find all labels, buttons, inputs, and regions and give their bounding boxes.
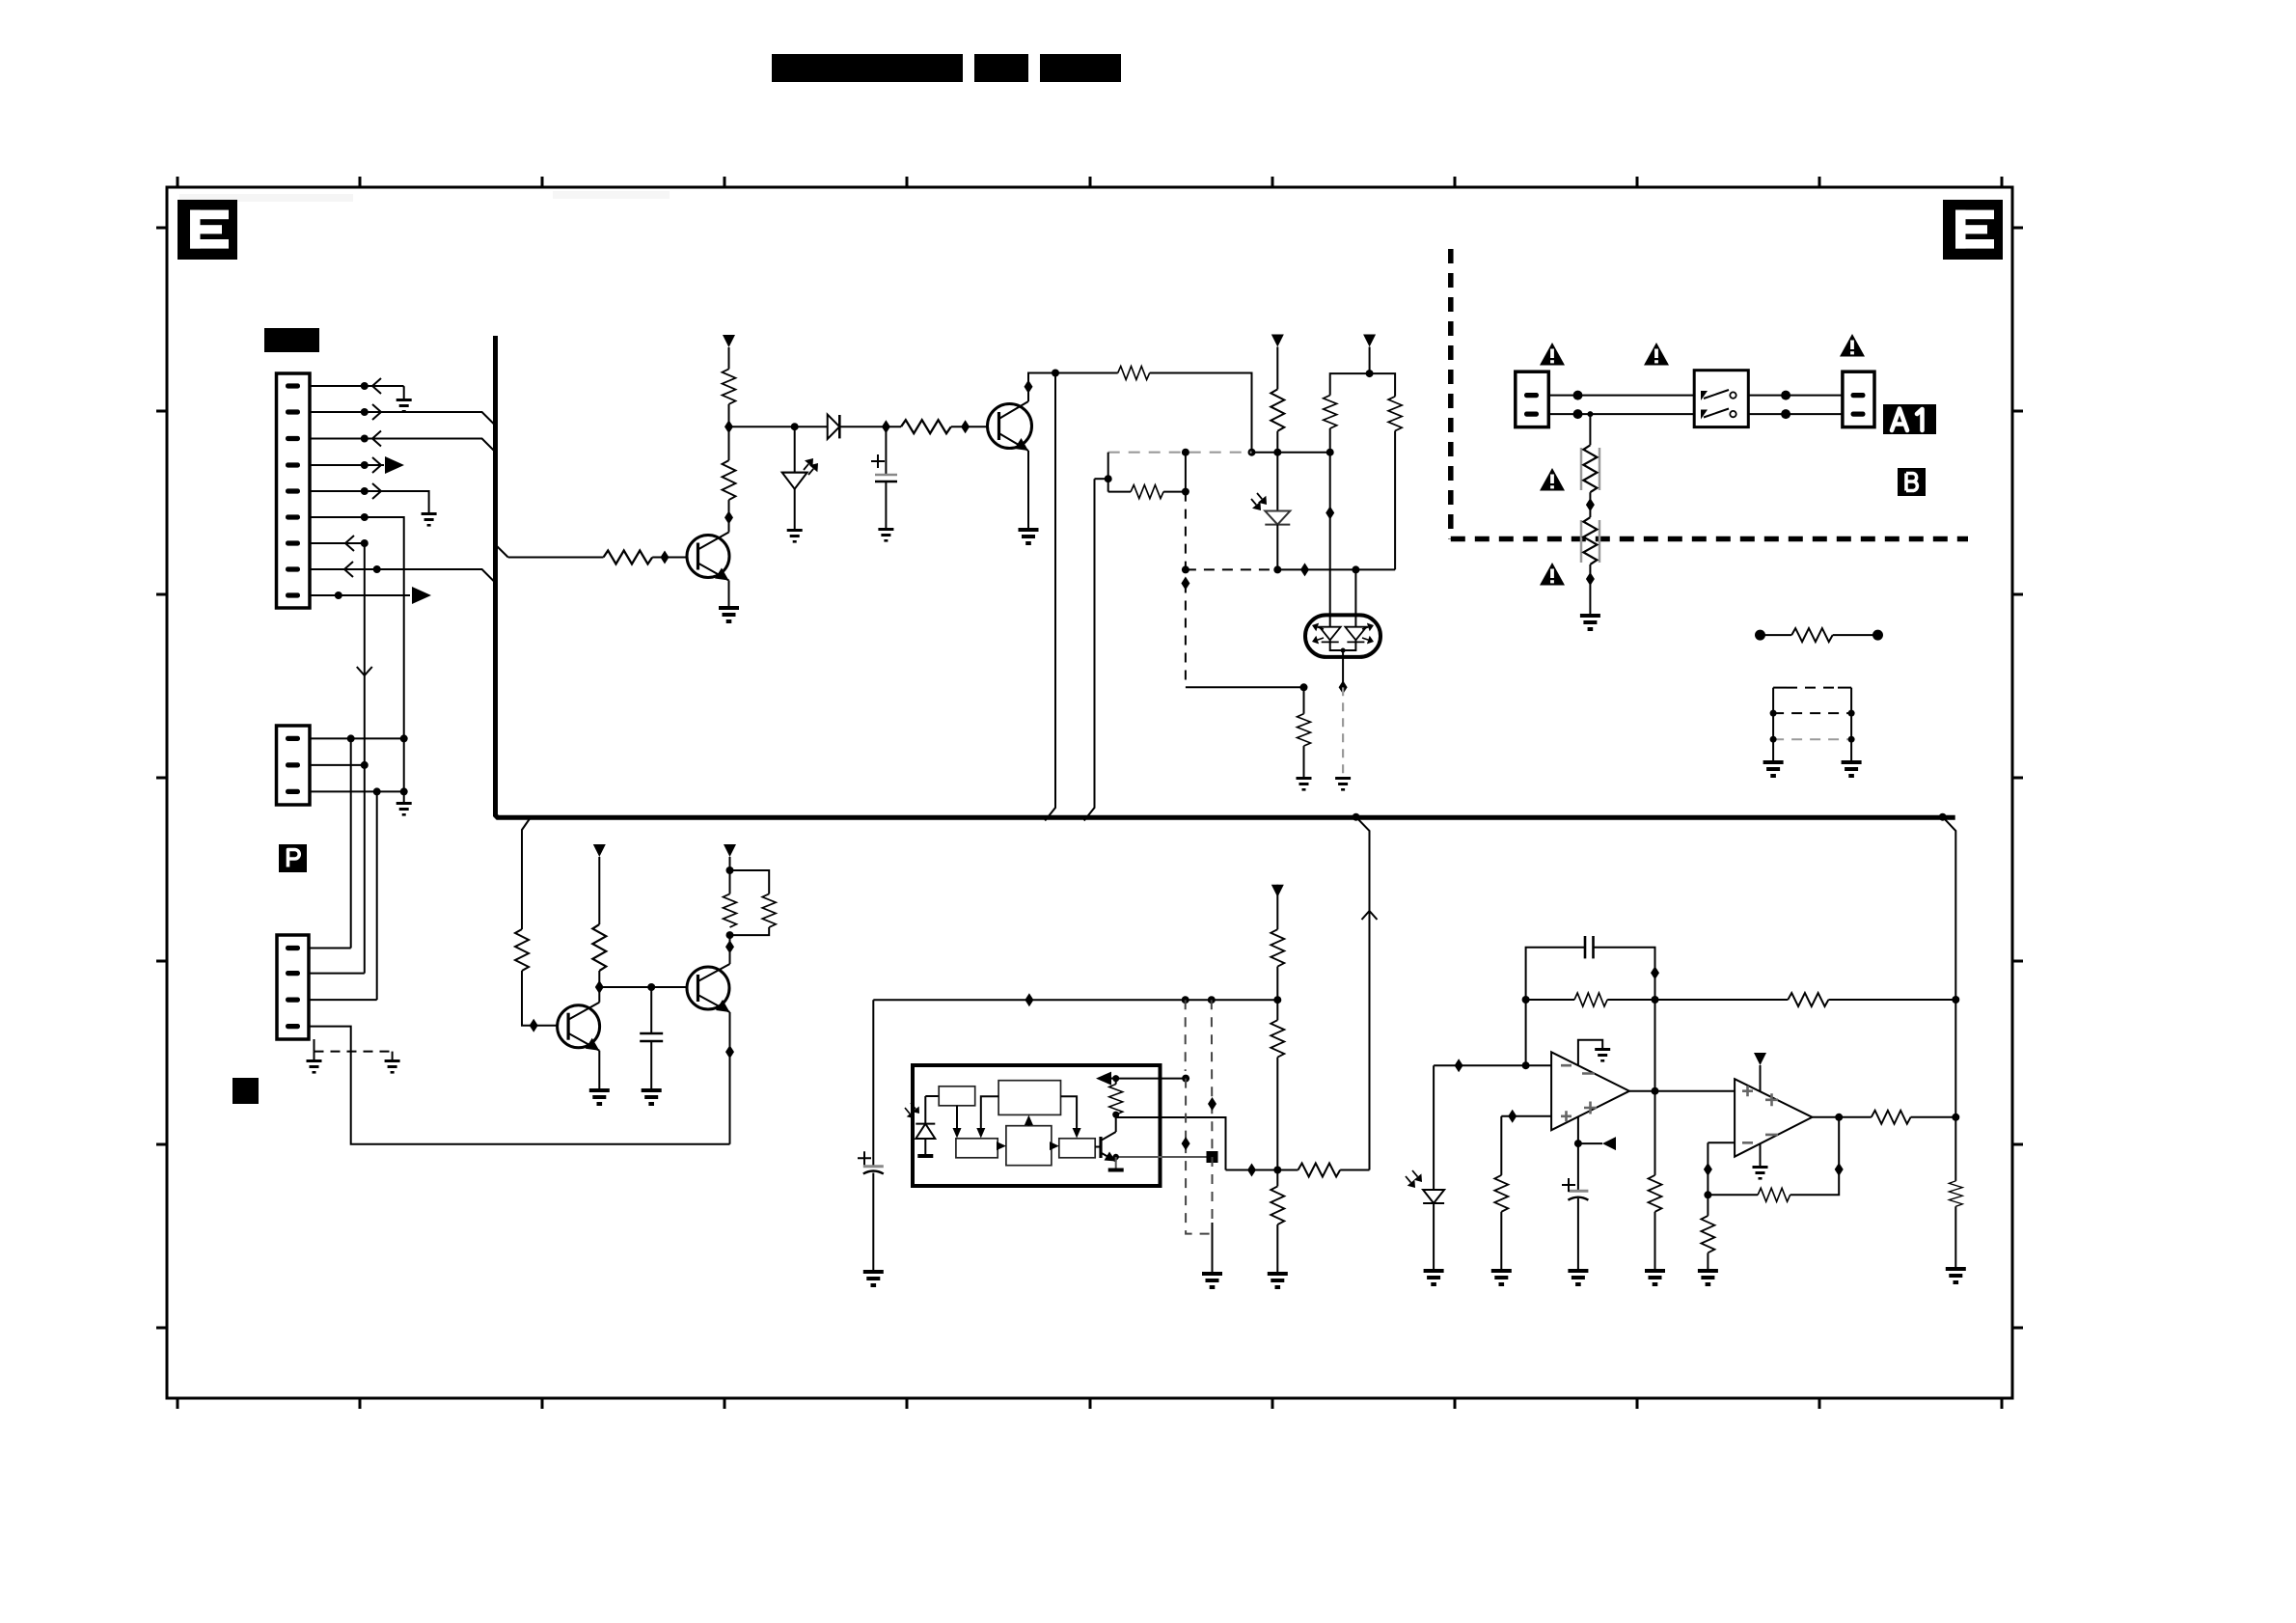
wire U1 photodiode top bbox=[924, 1096, 926, 1124]
dashed net v1 upper bbox=[1185, 453, 1187, 492]
wire to R8 bbox=[1055, 372, 1118, 374]
wire Q1 collector bbox=[728, 500, 730, 532]
wire node to R3 bbox=[728, 404, 730, 426]
wire J1 pin6 down to J2 bbox=[310, 517, 404, 738]
signal arrow pin4 bbox=[372, 457, 381, 473]
resistor R16 bbox=[724, 894, 737, 927]
wire C5 to output column bbox=[1594, 948, 1655, 1000]
wire R22 to output col bbox=[1607, 999, 1654, 1001]
resistor R14 bbox=[1791, 628, 1832, 642]
wire D4 to ground bbox=[1433, 1203, 1435, 1269]
resistor R17 bbox=[762, 894, 776, 927]
power supply arrow 3 bbox=[1363, 335, 1376, 347]
IC U1 box bbox=[913, 1065, 1161, 1186]
ground C4 bbox=[1568, 1269, 1588, 1286]
junction diamond rail mid bbox=[1025, 993, 1033, 1006]
junction rail a bbox=[1248, 449, 1256, 456]
ground R20 bbox=[1268, 1272, 1288, 1289]
junction diamond v2 bbox=[1208, 1097, 1216, 1111]
U1 block 2 bbox=[998, 1081, 1060, 1115]
junction U2 fb bbox=[1522, 1061, 1530, 1069]
wire output col down bbox=[1654, 1091, 1656, 1175]
wire arrow stub bbox=[1102, 1078, 1116, 1080]
output arrow pin4 bbox=[385, 456, 404, 474]
ground shield left bbox=[307, 1059, 322, 1074]
wire shield gnd right bbox=[392, 1052, 394, 1059]
wire photodiode to block1 bbox=[925, 1095, 939, 1097]
U1 ref arrow bbox=[1096, 1072, 1111, 1086]
junction diamond opto left bbox=[1326, 507, 1334, 520]
wire supply6 to R18 bbox=[1276, 885, 1278, 929]
wire U1 emitter stub bbox=[1115, 1157, 1117, 1169]
wire U1 ref pin bbox=[1116, 1078, 1186, 1080]
U1 arrow blk2-blk5 bbox=[1061, 1096, 1081, 1138]
power supply arrow 2 bbox=[1271, 335, 1284, 347]
junction chain fb bbox=[1273, 1167, 1281, 1174]
diode D1 bbox=[828, 415, 840, 439]
wire to R14 bbox=[1761, 634, 1792, 636]
junction R12 bbox=[1182, 488, 1189, 496]
connector J2 (3-pin) bbox=[277, 726, 311, 805]
wire R7 to Q2 base bbox=[951, 426, 988, 427]
wire R14 to terminal bbox=[1833, 634, 1878, 636]
resistor R13 bbox=[1298, 714, 1311, 746]
wire J1 pin4 bbox=[310, 464, 384, 466]
junction J2 pin1 b bbox=[400, 734, 408, 742]
junction J2 pin1 a bbox=[347, 734, 355, 742]
resistor R10 bbox=[1324, 396, 1337, 428]
LED D2 bbox=[782, 458, 818, 489]
bus junction bbox=[1353, 813, 1360, 821]
junction diamond Q4 emitter bbox=[725, 1045, 734, 1059]
junction collector rail bbox=[1052, 370, 1059, 377]
dashed sense line v1 bbox=[1185, 1000, 1187, 1071]
wire shield gnd left bbox=[314, 1052, 315, 1059]
wire to supply 5 bbox=[729, 857, 731, 870]
wire R5 to Q3 base bbox=[522, 971, 558, 1026]
wire C3 to ground bbox=[872, 1173, 874, 1271]
U1 output transistor bbox=[1095, 1132, 1116, 1162]
border frame bbox=[167, 187, 2012, 1398]
junction diamond U2 plus bbox=[1508, 1110, 1517, 1123]
U1 arrow blk3-blk4 bbox=[997, 1142, 1006, 1150]
capacitor C5 bbox=[1585, 936, 1594, 958]
wire J1 pin1 to ground bbox=[310, 386, 404, 399]
wire fb to R22 bbox=[1526, 999, 1574, 1001]
junction link L1 bbox=[1770, 710, 1777, 717]
wire Q2 collector up bbox=[1028, 373, 1055, 402]
bus entry to opamp rail bbox=[1943, 817, 1956, 1000]
opto right LED bbox=[1345, 623, 1374, 645]
supply rail mid bbox=[873, 999, 1277, 1001]
resistor R12 bbox=[1131, 485, 1163, 499]
wire bus to R6 bbox=[508, 557, 604, 559]
junction diamond Q3 base bbox=[530, 1019, 538, 1032]
wire R18 to R19 bbox=[1276, 967, 1278, 1021]
safety bars RF2 bbox=[1581, 520, 1599, 563]
wire R28 to col bbox=[1828, 999, 1955, 1001]
junction LED bottom bbox=[1273, 565, 1281, 573]
junction chain mid bbox=[1273, 996, 1281, 1004]
ground R13 bbox=[1297, 777, 1312, 791]
power supply arrow 4 bbox=[593, 844, 606, 857]
ground Q3 bbox=[589, 1088, 610, 1106]
bus line (thick) bbox=[496, 336, 1955, 817]
dashed rail to IC section bbox=[1108, 452, 1252, 454]
ground R29 bbox=[1946, 1267, 1966, 1284]
opto common bar bbox=[1330, 640, 1356, 650]
capacitor C4 (polarized) bbox=[1562, 1178, 1588, 1200]
resistor R22 bbox=[1574, 993, 1607, 1006]
connector J1 (9-pin) bbox=[277, 373, 311, 608]
wire U3 to ground bbox=[1760, 1143, 1762, 1166]
warning triangle 3 bbox=[1840, 334, 1865, 357]
dashed sense line v1b bbox=[1186, 1079, 1212, 1234]
connector X2 (2-pin) bbox=[1843, 371, 1874, 426]
wire col down bbox=[1954, 1000, 1956, 1181]
connector J3 pins bbox=[286, 946, 300, 1029]
resistor R19 bbox=[1271, 1020, 1284, 1057]
junction U1 R top bbox=[1112, 1075, 1119, 1082]
resistor R6 bbox=[604, 551, 653, 564]
wire dashed rail corner down bbox=[1107, 453, 1109, 492]
dashed link mid bbox=[1773, 712, 1851, 714]
wire SW1 to X2 neutral bbox=[1748, 413, 1843, 415]
wire Q3 collector to Q4 base bbox=[599, 986, 687, 988]
wire node to C1 bbox=[885, 426, 887, 475]
isolation barrier (thick dashed) bbox=[1451, 249, 1968, 539]
wire Q1 emitter to ground bbox=[728, 581, 730, 607]
terminal dot right bbox=[1872, 630, 1883, 641]
ground pin5 bbox=[422, 512, 437, 527]
junction R16 top bbox=[726, 867, 734, 874]
resistor R23 bbox=[1494, 1175, 1508, 1212]
junction node LED bbox=[791, 423, 799, 430]
U1 block 3 bbox=[956, 1139, 998, 1158]
wire opto common down bbox=[1342, 650, 1344, 687]
wire U2 non-inverting input bbox=[1501, 1115, 1551, 1117]
power supply arrow 5 bbox=[724, 844, 736, 857]
junction U1 R bottom bbox=[1112, 1112, 1119, 1118]
dashed net v1 mid bbox=[1185, 492, 1187, 570]
transistor Q1 bbox=[687, 533, 729, 581]
wire fb to R26 bbox=[1708, 1194, 1758, 1196]
junction diamond Q2 base bbox=[961, 420, 970, 433]
wire J1 pin3 to bus bbox=[310, 439, 495, 452]
junction fb left bbox=[1522, 996, 1530, 1004]
junction J2 pin2 bbox=[361, 761, 369, 769]
dashed row 590 bbox=[1186, 568, 1277, 570]
junction line b bbox=[1781, 391, 1790, 400]
wire U2 inverting input bbox=[1434, 1064, 1551, 1066]
wire R23 to ground bbox=[1500, 1212, 1502, 1269]
junction output col top bbox=[1652, 996, 1659, 1004]
resistor R8 bbox=[1118, 367, 1150, 380]
junction diamond v1 bbox=[1181, 577, 1189, 591]
wire rail to opto left LED bbox=[1329, 453, 1331, 627]
wire R16 R17 top bbox=[730, 870, 770, 894]
resistor R11 bbox=[1388, 397, 1402, 431]
feedback rail right bbox=[1340, 1169, 1369, 1171]
wire to R12 bbox=[1108, 491, 1131, 493]
photodiode return stub bbox=[917, 1154, 933, 1158]
title redaction bar 3 bbox=[1040, 54, 1121, 82]
zone label E left bbox=[178, 200, 237, 260]
ground D2 bbox=[787, 529, 803, 543]
U1 arrow blk2-blk3 bbox=[976, 1096, 998, 1138]
switch pole 2 bbox=[1701, 409, 1736, 420]
wire J1 pin2 to bus bbox=[310, 412, 495, 425]
feedback rail left bbox=[1226, 1169, 1298, 1171]
junction diamond U3 fb bbox=[1704, 1163, 1712, 1176]
connector J2 pins bbox=[286, 736, 300, 794]
ground link right bbox=[1842, 760, 1862, 778]
wire R12 to dashed v1 bbox=[1163, 491, 1186, 493]
terminal dot left bbox=[1755, 630, 1765, 641]
junction U3 out bbox=[1835, 1114, 1843, 1121]
ground D4 bbox=[1424, 1269, 1444, 1286]
resistor R5 bbox=[515, 929, 529, 971]
wire R6 to Q1 base bbox=[652, 557, 687, 559]
junction col mid bbox=[1952, 996, 1959, 1004]
safety bars RF1 bbox=[1581, 448, 1599, 490]
opto left LED bbox=[1312, 623, 1341, 645]
signal arrow pin7 bbox=[345, 536, 354, 551]
junction pin5 bbox=[361, 487, 369, 495]
wire Q4 collector bbox=[729, 935, 731, 964]
wire rail to LED D3 bbox=[1276, 453, 1278, 511]
junction J2 pin3 b bbox=[400, 787, 408, 795]
signal arrow pin1 bbox=[372, 378, 381, 394]
wire X1 to SW1 neutral bbox=[1548, 413, 1694, 415]
output arrow pin9 bbox=[412, 587, 431, 604]
wire Q4 emitter down bbox=[729, 1012, 731, 1144]
link right vertical bbox=[1850, 688, 1852, 760]
wire J2 pin2 down to J3 pin2 bbox=[364, 765, 366, 974]
wire row to opto right LED bbox=[1354, 569, 1356, 626]
dual LED indicator (stadium) bbox=[1305, 615, 1380, 657]
wire IC rail down to bus bbox=[1084, 479, 1095, 820]
wire J1 pin5 to ground bbox=[310, 491, 429, 512]
junction square v2 bbox=[1207, 1151, 1218, 1163]
junction dashed rail bbox=[1182, 449, 1189, 456]
wire to ground J2 bbox=[403, 791, 405, 802]
resistor R24 bbox=[1649, 1175, 1662, 1212]
signal arrow pin3 bbox=[372, 431, 381, 447]
wire U2 output to U3 bbox=[1629, 1090, 1735, 1092]
bus entry feedback line bbox=[1356, 817, 1370, 1170]
junction J2 pin3 a bbox=[373, 787, 381, 795]
wire U1 collector bbox=[1115, 1117, 1117, 1132]
link left vertical bbox=[1772, 688, 1774, 760]
resistor R15 bbox=[592, 924, 606, 971]
power supply arrow 7 bbox=[1754, 1053, 1766, 1065]
wire LED to ground bbox=[794, 489, 796, 529]
op-amp U3 bbox=[1735, 1079, 1812, 1157]
U1 emitter stub bar bbox=[1108, 1169, 1124, 1172]
zone label P bbox=[279, 844, 307, 872]
resistor R21 bbox=[1298, 1164, 1341, 1177]
bus entry to Q1 base rail bbox=[495, 544, 508, 558]
wire J2 pin3 down to J3 pin3 bbox=[376, 791, 378, 1000]
wire supply3 down bbox=[1369, 347, 1371, 374]
ground RF bbox=[1580, 614, 1600, 631]
wire RF1 to RF2 bbox=[1589, 492, 1591, 517]
junction R16 R17 bbox=[726, 931, 734, 939]
transistor Q2 bbox=[988, 401, 1032, 451]
wire J2 pin1 bbox=[310, 737, 404, 739]
zone label E right bbox=[1943, 200, 2003, 260]
fusible resistor RF2 bbox=[1583, 517, 1597, 564]
junction diamond fb bbox=[1247, 1164, 1256, 1177]
zone label B bbox=[1898, 468, 1926, 496]
dashed link bottom bbox=[1773, 738, 1851, 740]
junction link R2 bbox=[1848, 736, 1855, 743]
link top right stub bbox=[1838, 687, 1851, 689]
junction opto R rail bbox=[1300, 683, 1308, 691]
wire J1 pin9 bbox=[310, 594, 410, 596]
wire R20 to ground bbox=[1276, 1224, 1278, 1272]
wire J2 pin1 down to J3 pin1 bbox=[350, 738, 352, 948]
junction diamond v1 low bbox=[1182, 1137, 1190, 1150]
junction pin4 bbox=[361, 461, 369, 469]
wire U1 output pin bbox=[1116, 1114, 1226, 1169]
zone label A1 bbox=[1883, 404, 1936, 434]
junction neutral a bbox=[1573, 409, 1583, 419]
resistor R29 bbox=[1949, 1181, 1962, 1206]
wire U2 bias leg bbox=[1577, 1116, 1579, 1191]
junction pin1 bbox=[361, 382, 369, 390]
junction U3 fb R bbox=[1704, 1191, 1711, 1198]
wire pin7 bus down bbox=[364, 543, 366, 765]
junction diamond Q1 collector bbox=[724, 510, 733, 524]
ground Q1 bbox=[719, 606, 739, 623]
wire bias arrow bbox=[1578, 1142, 1602, 1144]
junction pin7 bbox=[361, 539, 369, 547]
ground R25 bbox=[1698, 1269, 1718, 1286]
photodiode D4 bbox=[1406, 1170, 1444, 1203]
wire U3 fb leg bbox=[1707, 1142, 1708, 1216]
ground C3 bbox=[863, 1270, 884, 1287]
dashed wire opto to ground bbox=[1342, 687, 1344, 777]
warning triangle 1 bbox=[1540, 343, 1565, 366]
wire supply rail to R10 R11 bbox=[1330, 373, 1395, 397]
wire R19 down bbox=[1276, 1058, 1278, 1187]
title redaction bar 2 bbox=[974, 54, 1028, 82]
junction fusible tap bbox=[1587, 411, 1593, 417]
wire J3 shield stub bbox=[314, 1039, 315, 1052]
wire R3 to supply bbox=[728, 347, 730, 369]
resistor R9 bbox=[1271, 389, 1284, 430]
connector J1 pins bbox=[286, 383, 300, 597]
wire to C2 bbox=[650, 987, 652, 1033]
wire R13 to ground bbox=[1303, 746, 1305, 777]
photodiode U1 bbox=[905, 1103, 935, 1139]
ground v2 bbox=[1202, 1272, 1222, 1289]
op-amp U2 bbox=[1551, 1052, 1629, 1130]
LED D3 (photo) bbox=[1251, 493, 1290, 525]
resistor R27 bbox=[1872, 1111, 1911, 1124]
signal arrow pin8 bbox=[344, 562, 353, 577]
wire row 590 solid bbox=[1277, 568, 1395, 570]
wire R27 to col bbox=[1911, 1116, 1956, 1118]
wire R24 to ground bbox=[1654, 1212, 1656, 1269]
wire J1 pin7 bbox=[310, 542, 365, 544]
wire v2 to ground bbox=[1212, 1223, 1214, 1272]
junction out col bbox=[1952, 1114, 1959, 1121]
wire to R13 bbox=[1303, 687, 1305, 713]
junction diamond fb col bbox=[1651, 966, 1659, 979]
warning triangle 2 bbox=[1644, 343, 1669, 366]
junction dashed v1 top bbox=[1182, 996, 1189, 1004]
junction rail c bbox=[1326, 449, 1334, 456]
wire photodiode down bbox=[924, 1139, 926, 1154]
wire R15 to supply bbox=[598, 857, 600, 924]
junction jog bbox=[1105, 475, 1112, 482]
wire J3 pin3 bbox=[309, 999, 377, 1001]
wire J2 pin3 bbox=[310, 790, 404, 792]
wire rail to C3 bbox=[872, 1000, 874, 1167]
fusible resistor RF1 bbox=[1583, 445, 1597, 492]
warning triangle 4 bbox=[1540, 468, 1565, 491]
resistor R26 bbox=[1758, 1188, 1790, 1201]
junction link R1 bbox=[1848, 710, 1855, 717]
ground J2 bbox=[396, 802, 412, 816]
dashed shield wire bbox=[314, 1051, 393, 1053]
ground C1 bbox=[878, 528, 893, 542]
bus entry to R5 bbox=[522, 818, 531, 930]
U1 arrow blk4-blk2 bbox=[1025, 1115, 1033, 1126]
dashed sense line v2 bbox=[1211, 1000, 1214, 1157]
signal arrow pin5 bbox=[372, 483, 381, 499]
wire U2 fb up bbox=[1526, 948, 1585, 1065]
signal arrow pin2 bbox=[372, 404, 381, 420]
wire C2 to ground bbox=[650, 1041, 652, 1088]
power supply arrow bbox=[723, 335, 735, 347]
wire R9 to rail bbox=[1276, 431, 1278, 453]
flow arrow down bbox=[357, 667, 372, 675]
resistor U1 R bbox=[1109, 1084, 1123, 1114]
junction diamond RF bbox=[1586, 498, 1595, 511]
junction diamond Q1 base bbox=[661, 551, 670, 564]
wire plus leg down bbox=[1500, 1116, 1502, 1175]
ground R23 bbox=[1491, 1269, 1512, 1286]
wire J1 pin8 to bus bbox=[310, 569, 495, 582]
transistor Q3 bbox=[558, 1003, 600, 1051]
ground link left bbox=[1763, 760, 1784, 778]
wire to photodiode D4 bbox=[1433, 1065, 1435, 1190]
ground opto bbox=[1335, 777, 1351, 791]
U1 block 5 bbox=[1059, 1139, 1095, 1158]
wire supply to U3 bbox=[1760, 1065, 1762, 1091]
wire Q3 collector up bbox=[598, 971, 600, 1003]
junction line a bbox=[1573, 391, 1583, 400]
U1 block 4 bbox=[1006, 1126, 1052, 1166]
ground pin1 bbox=[396, 399, 412, 413]
wire C1 to ground bbox=[885, 481, 887, 528]
wire R11 down bbox=[1394, 431, 1396, 570]
wire R25 to ground bbox=[1707, 1252, 1708, 1269]
wire J3 pin4 to Q4 emitter bbox=[309, 1027, 730, 1144]
ground Q2 bbox=[1019, 528, 1039, 545]
wire J3 pin1 bbox=[309, 948, 351, 949]
capacitor C1 (polarized) bbox=[871, 454, 897, 481]
wire R26 to output bbox=[1790, 1117, 1840, 1196]
junction link L2 bbox=[1770, 736, 1777, 743]
wire U1 emitter pin bbox=[1116, 1157, 1213, 1162]
wire to LED D2 bbox=[794, 426, 796, 472]
wire fb rail right bbox=[1655, 999, 1789, 1001]
